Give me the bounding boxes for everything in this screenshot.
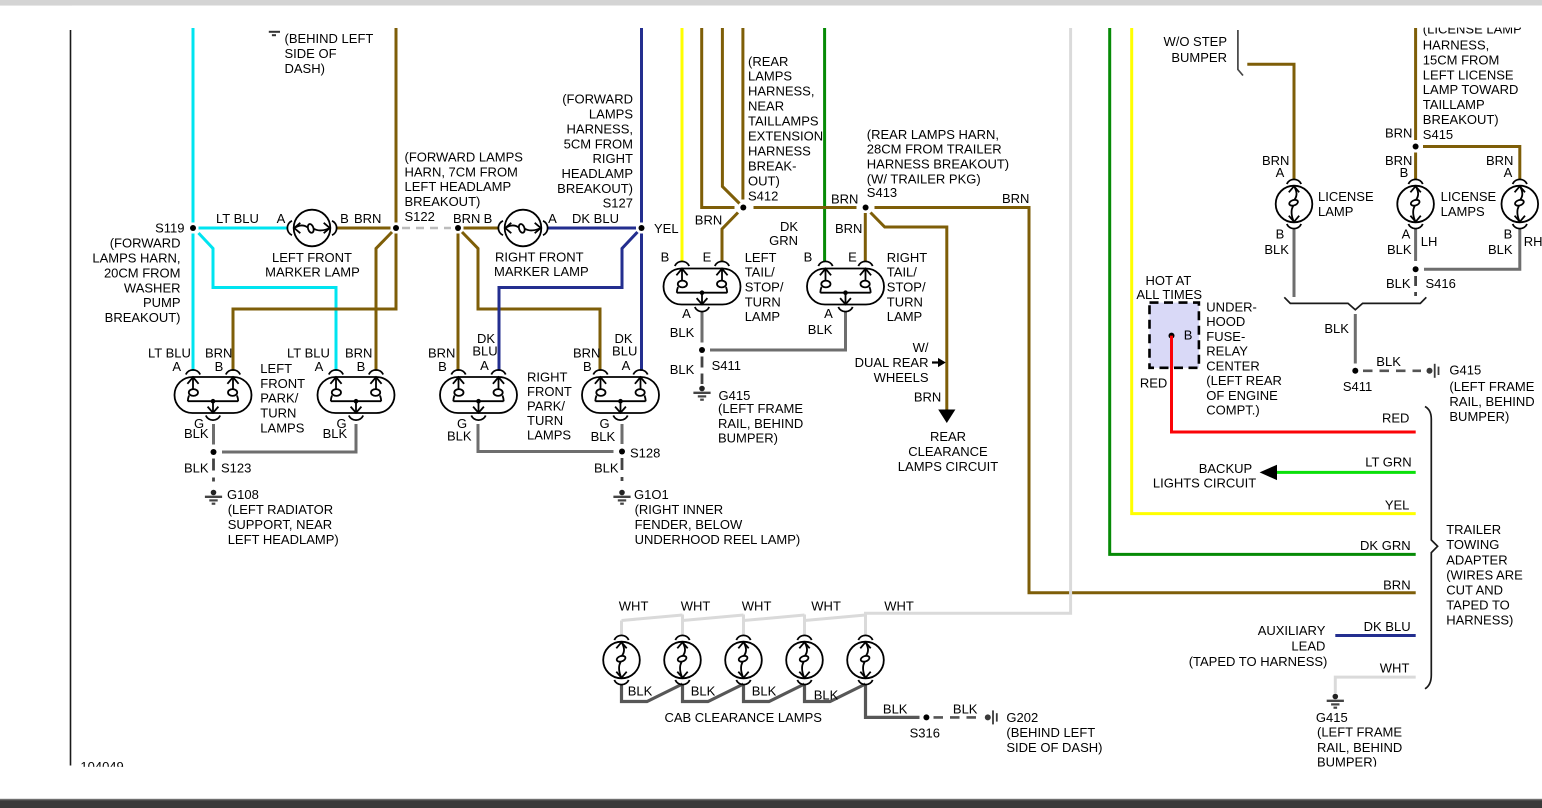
svg-text:LICENSE: LICENSE bbox=[1318, 189, 1374, 204]
top gray bar bbox=[0, 0, 1542, 6]
svg-text:REAR: REAR bbox=[930, 429, 966, 444]
svg-text:BLK: BLK bbox=[670, 362, 695, 377]
svg-text:CAB CLEARANCE LAMPS: CAB CLEARANCE LAMPS bbox=[664, 710, 822, 725]
lamp LEFT FRONT MARKER LAMP bbox=[287, 210, 336, 247]
wire BLK left tail lamp A to S411 bbox=[701, 311, 704, 343]
svg-text:B: B bbox=[1184, 327, 1193, 342]
label S127 breakout note bbox=[557, 92, 633, 211]
svg-text:RED: RED bbox=[1140, 376, 1167, 391]
svg-text:(LEFT FRAME: (LEFT FRAME bbox=[1317, 725, 1402, 740]
svg-text:SIDE OF: SIDE OF bbox=[285, 46, 337, 61]
wire BLK lamp2 G to S123 bbox=[222, 424, 356, 452]
svg-text:NEAR: NEAR bbox=[748, 99, 784, 114]
svg-text:HEADLAMP: HEADLAMP bbox=[561, 166, 633, 181]
node S128 bbox=[619, 449, 625, 455]
label BACKUP LIGHTS CIRCUIT bbox=[1153, 461, 1256, 491]
wire BRN S413 down to right tail lamp E bbox=[864, 213, 867, 262]
ground G415 bottom right bbox=[1327, 694, 1344, 708]
svg-text:HARNESS BREAKOUT): HARNESS BREAKOUT) bbox=[867, 157, 1009, 172]
svg-text:TURN: TURN bbox=[887, 294, 923, 309]
lamp LICENSE LAMP bbox=[1276, 179, 1313, 228]
splice S411 dashed bbox=[701, 357, 704, 385]
wire BLK RH license lamp B to S416 bbox=[1424, 228, 1520, 269]
lamp CAB CLEARANCE 5 bbox=[847, 635, 884, 684]
svg-text:S411: S411 bbox=[1343, 379, 1372, 394]
svg-text:LEAD: LEAD bbox=[1291, 639, 1325, 654]
svg-text:B: B bbox=[1400, 165, 1409, 180]
svg-text:A: A bbox=[622, 358, 631, 373]
svg-text:DK: DK bbox=[780, 219, 798, 234]
splice S411 right dashed bbox=[1363, 369, 1421, 372]
svg-text:UNDERHOOD REEL LAMP): UNDERHOOD REEL LAMP) bbox=[635, 532, 801, 547]
svg-text:LAMPS: LAMPS bbox=[527, 427, 571, 442]
svg-text:LH: LH bbox=[1421, 234, 1438, 249]
svg-text:TAILLAMPS: TAILLAMPS bbox=[748, 114, 819, 129]
svg-text:FRONT: FRONT bbox=[260, 376, 305, 391]
svg-text:TURN: TURN bbox=[260, 406, 296, 421]
svg-text:BACKUP: BACKUP bbox=[1199, 461, 1252, 476]
label TRAILER TOWING ADAPTER bbox=[1446, 522, 1523, 628]
wire LT BLU S119 branch to lamp2 A bbox=[199, 233, 337, 371]
svg-text:WHT: WHT bbox=[681, 599, 711, 614]
svg-text:15CM FROM: 15CM FROM bbox=[1423, 53, 1500, 68]
bottom clip mask bbox=[0, 767, 1542, 795]
svg-text:BRN: BRN bbox=[1002, 191, 1029, 206]
svg-text:RAIL, BEHIND: RAIL, BEHIND bbox=[1317, 740, 1402, 755]
svg-text:HARNESS,: HARNESS, bbox=[1423, 38, 1489, 53]
label behind-dash note bbox=[285, 31, 374, 76]
svg-text:WHT: WHT bbox=[811, 599, 841, 614]
svg-text:HARNESS): HARNESS) bbox=[1446, 613, 1513, 628]
svg-text:PUMP: PUMP bbox=[143, 295, 181, 310]
svg-text:DK BLU: DK BLU bbox=[572, 211, 619, 226]
fuse box terminal B dot bbox=[1169, 333, 1175, 339]
node S416 bbox=[1413, 266, 1419, 272]
svg-text:BLU: BLU bbox=[472, 344, 497, 359]
wire BRN S412 to left tail lamp E bbox=[722, 213, 738, 263]
splice S416 dashed bbox=[1414, 276, 1417, 296]
svg-text:B: B bbox=[438, 359, 447, 374]
svg-text:S122: S122 bbox=[405, 209, 435, 224]
svg-text:S412: S412 bbox=[748, 188, 778, 203]
lamp RIGHT FRONT PARK/TURN 1 bbox=[440, 370, 517, 420]
wire RED fuse center to trailer RED row bbox=[1172, 336, 1416, 432]
svg-text:BLK: BLK bbox=[447, 428, 472, 443]
svg-text:S123: S123 bbox=[221, 461, 251, 476]
wire BRN vertical into S412 bbox=[741, 28, 744, 200]
label LEFT FRONT MARKER LAMP bbox=[265, 250, 360, 280]
svg-text:PARK/: PARK/ bbox=[260, 391, 298, 406]
trailer towing adapter brace bbox=[1425, 407, 1438, 689]
lamp CAB CLEARANCE 2 bbox=[664, 635, 701, 684]
label REAR CLEARANCE LAMPS CIRCUIT bbox=[898, 429, 998, 474]
svg-text:S416: S416 bbox=[1426, 276, 1456, 291]
svg-text:LAMPS: LAMPS bbox=[748, 69, 792, 84]
wire BLK lamp3 G to S128 bbox=[478, 424, 614, 452]
bottom gray edge bbox=[0, 799, 1542, 801]
connector G415 right bbox=[1427, 364, 1439, 378]
svg-text:HOOD: HOOD bbox=[1206, 314, 1245, 329]
svg-text:LT BLU: LT BLU bbox=[287, 345, 330, 360]
wire BRN S122 diagonal branch to lamp2 B bbox=[376, 232, 392, 371]
node S412 bbox=[740, 205, 746, 211]
svg-text:BLK: BLK bbox=[1324, 321, 1349, 336]
svg-text:(BEHIND LEFT: (BEHIND LEFT bbox=[1006, 725, 1095, 740]
svg-text:LIGHTS CIRCUIT: LIGHTS CIRCUIT bbox=[1153, 476, 1256, 491]
label LEFT FRONT PARK/TURN LAMPS bbox=[260, 361, 305, 435]
svg-text:S413: S413 bbox=[867, 185, 897, 200]
svg-text:MARKER LAMP: MARKER LAMP bbox=[494, 264, 589, 279]
svg-text:WHT: WHT bbox=[619, 599, 649, 614]
svg-text:BUMPER): BUMPER) bbox=[718, 431, 778, 446]
svg-text:(FORWARD LAMPS: (FORWARD LAMPS bbox=[405, 150, 524, 165]
label S415 breakout note bbox=[1423, 22, 1522, 142]
svg-text:RELAY: RELAY bbox=[1206, 344, 1248, 359]
svg-text:DK GRN: DK GRN bbox=[1360, 538, 1411, 553]
arrow backup lights circuit bbox=[1260, 465, 1277, 480]
svg-text:BLK: BLK bbox=[670, 325, 695, 340]
label G108 note bbox=[227, 487, 339, 547]
svg-text:S411: S411 bbox=[712, 358, 741, 373]
wire BLK lamp4 G to S128 bbox=[621, 424, 624, 444]
splice S316 dashed bbox=[934, 716, 983, 719]
svg-text:A: A bbox=[315, 359, 324, 374]
svg-text:BLK: BLK bbox=[184, 426, 209, 441]
splice S128 dashed bbox=[621, 458, 624, 486]
wire WHT auxiliary row to ground bbox=[1335, 677, 1415, 693]
lamp CAB CLEARANCE 4 bbox=[786, 635, 823, 684]
svg-text:PARK/: PARK/ bbox=[527, 398, 565, 413]
ground G1O1 bbox=[613, 490, 630, 504]
svg-text:BLK: BLK bbox=[691, 684, 716, 699]
lamp CAB CLEARANCE 3 bbox=[725, 635, 762, 684]
svg-text:WASHER: WASHER bbox=[124, 280, 181, 295]
svg-text:B: B bbox=[484, 211, 493, 226]
svg-text:ALL TIMES: ALL TIMES bbox=[1136, 287, 1202, 302]
svg-text:AUXILIARY: AUXILIARY bbox=[1258, 623, 1326, 638]
svg-text:CENTER: CENTER bbox=[1206, 358, 1259, 373]
svg-text:LICENSE: LICENSE bbox=[1441, 189, 1497, 204]
lamp LICENSE RH bbox=[1502, 179, 1539, 228]
svg-text:A: A bbox=[1402, 226, 1411, 241]
svg-text:BREAKOUT): BREAKOUT) bbox=[557, 181, 633, 196]
node S316 bbox=[923, 714, 929, 720]
label G415 bottom note bbox=[1316, 710, 1402, 770]
svg-text:LEFT FRONT: LEFT FRONT bbox=[272, 250, 352, 265]
label AUXILIARY LEAD bbox=[1189, 623, 1328, 669]
svg-text:B: B bbox=[804, 250, 813, 265]
svg-text:G1O1: G1O1 bbox=[634, 487, 669, 502]
svg-text:B: B bbox=[583, 359, 592, 374]
wire DK GRN vertical to trailer DK GRN row bbox=[1110, 28, 1416, 554]
node S413 bbox=[863, 205, 869, 211]
svg-text:HARN, 7CM FROM: HARN, 7CM FROM bbox=[405, 164, 518, 179]
svg-text:(FORWARD: (FORWARD bbox=[110, 236, 181, 251]
svg-text:CLEARANCE: CLEARANCE bbox=[908, 444, 988, 459]
wire BLK right tail lamp A to S411 bbox=[710, 311, 846, 350]
svg-text:YEL: YEL bbox=[1385, 498, 1410, 513]
ground G108 bbox=[205, 490, 222, 504]
svg-text:BREAKOUT): BREAKOUT) bbox=[405, 194, 481, 209]
svg-text:A: A bbox=[480, 358, 489, 373]
svg-text:BLK: BLK bbox=[1376, 354, 1401, 369]
svg-text:HOT AT: HOT AT bbox=[1146, 273, 1192, 288]
svg-text:LEFT HEADLAMP: LEFT HEADLAMP bbox=[405, 179, 512, 194]
svg-text:BREAKOUT): BREAKOUT) bbox=[1423, 112, 1499, 127]
label G415 right note bbox=[1449, 363, 1534, 424]
svg-text:BLK: BLK bbox=[814, 688, 839, 703]
svg-text:OF ENGINE: OF ENGINE bbox=[1206, 388, 1278, 403]
wire BRN vertical with diagonal into S412 bbox=[722, 28, 739, 204]
svg-text:TURN: TURN bbox=[527, 413, 563, 428]
node S122 link right bbox=[455, 225, 461, 231]
wire WHT vertical from top down then left to cab lamp 5 bbox=[866, 28, 1071, 636]
lamp LEFT FRONT PARK/TURN 1 bbox=[175, 370, 252, 420]
mini ground behind-dash bbox=[269, 31, 280, 33]
svg-text:TRAILER: TRAILER bbox=[1446, 522, 1501, 537]
wire YEL vertical to trailer YEL row bbox=[1132, 28, 1416, 514]
svg-text:W/: W/ bbox=[913, 340, 929, 355]
svg-text:WHT: WHT bbox=[1380, 661, 1410, 676]
label S122 breakout note bbox=[405, 150, 524, 224]
svg-text:TOWING: TOWING bbox=[1446, 537, 1499, 552]
label LEFT TAIL/STOP/TURN LAMP bbox=[745, 250, 784, 324]
wire WHT cab lamp risers and diagonals bbox=[622, 615, 866, 637]
svg-text:B: B bbox=[340, 211, 349, 226]
svg-text:BLK: BLK bbox=[1386, 276, 1411, 291]
svg-text:LAMPS: LAMPS bbox=[589, 107, 633, 122]
svg-text:A: A bbox=[682, 306, 691, 321]
svg-text:LAMP: LAMP bbox=[1318, 204, 1353, 219]
svg-text:EXTENSION: EXTENSION bbox=[748, 129, 823, 144]
label DK BLU lamp3 bbox=[472, 331, 497, 359]
svg-text:S119: S119 bbox=[155, 221, 184, 236]
svg-text:G415: G415 bbox=[1316, 710, 1348, 725]
bracket w/o step bumper bbox=[1238, 30, 1243, 76]
wire LT GRN backup lights row bbox=[1277, 471, 1416, 474]
svg-text:W/O STEP: W/O STEP bbox=[1163, 34, 1227, 49]
svg-text:YEL: YEL bbox=[654, 221, 679, 236]
svg-text:CUT AND: CUT AND bbox=[1446, 583, 1503, 598]
wire BLK brace to S411 right bbox=[1354, 314, 1357, 364]
svg-text:DK BLU: DK BLU bbox=[1364, 619, 1411, 634]
svg-text:RH: RH bbox=[1524, 234, 1542, 249]
svg-text:BREAKOUT): BREAKOUT) bbox=[105, 310, 181, 325]
svg-text:LAMP: LAMP bbox=[745, 309, 780, 324]
svg-text:BLK: BLK bbox=[1387, 242, 1412, 257]
svg-text:BREAK-: BREAK- bbox=[748, 158, 796, 173]
wire BRN S415 right and down to RH license lamp A bbox=[1423, 147, 1520, 181]
svg-text:RAIL, BEHIND: RAIL, BEHIND bbox=[718, 416, 803, 431]
svg-text:FUSE-: FUSE- bbox=[1206, 329, 1245, 344]
svg-text:ADAPTER: ADAPTER bbox=[1446, 552, 1507, 567]
wire BLK cab lamp chain bbox=[622, 684, 920, 717]
svg-text:LEFT HEADLAMP): LEFT HEADLAMP) bbox=[228, 532, 339, 547]
svg-text:A: A bbox=[1276, 165, 1285, 180]
node S127 bbox=[639, 225, 645, 231]
svg-text:COMPT.): COMPT.) bbox=[1206, 403, 1259, 418]
label W/ DUAL REAR WHEELS bbox=[855, 340, 929, 385]
lamp LICENSE LH bbox=[1397, 179, 1434, 228]
svg-text:G415: G415 bbox=[1449, 363, 1481, 378]
svg-text:S127: S127 bbox=[603, 196, 633, 211]
wire BRN S413 right then down then right to trailer BRN row bbox=[875, 208, 1416, 593]
lamp LEFT TAIL/STOP/TURN bbox=[664, 261, 741, 311]
svg-text:BLK: BLK bbox=[184, 461, 209, 476]
wire LT BLU vertical from top to S119 and on to lamp1 A bbox=[192, 28, 195, 223]
wire BRN left front marker lamp B to S122 bbox=[336, 227, 391, 230]
fuse-relay center box bbox=[1150, 303, 1199, 368]
svg-text:(BEHIND LEFT: (BEHIND LEFT bbox=[285, 31, 374, 46]
label S413 breakout note bbox=[867, 127, 1009, 200]
svg-text:E: E bbox=[848, 250, 857, 265]
wire BLK LH license lamp A to S416 bbox=[1414, 228, 1417, 261]
svg-text:OUT): OUT) bbox=[748, 173, 780, 188]
splice S123 dashed bbox=[212, 459, 215, 487]
svg-text:LEFT: LEFT bbox=[260, 361, 292, 376]
svg-text:LAMPS: LAMPS bbox=[260, 420, 304, 435]
svg-text:GRN: GRN bbox=[769, 233, 798, 248]
svg-text:(FORWARD: (FORWARD bbox=[562, 92, 633, 107]
svg-text:BRN: BRN bbox=[695, 213, 722, 228]
wire BRN S122 down then left to lamp1 B bbox=[233, 234, 396, 372]
svg-text:BLK: BLK bbox=[1488, 242, 1513, 257]
node S411 left bbox=[699, 347, 705, 353]
svg-text:RIGHT: RIGHT bbox=[527, 370, 568, 385]
label DK BLU lamp4 bbox=[612, 331, 637, 359]
svg-text:SIDE OF DASH): SIDE OF DASH) bbox=[1006, 740, 1102, 755]
left border line bbox=[70, 30, 72, 766]
lamp RIGHT FRONT MARKER LAMP bbox=[498, 210, 547, 247]
node S123 bbox=[211, 449, 217, 455]
svg-text:HARNESS,: HARNESS, bbox=[567, 121, 633, 136]
svg-text:FENDER, BELOW: FENDER, BELOW bbox=[635, 517, 743, 532]
label LICENSE LAMP bbox=[1318, 189, 1374, 219]
svg-text:A: A bbox=[277, 211, 286, 226]
svg-text:LAMPS: LAMPS bbox=[1441, 204, 1485, 219]
svg-text:WHT: WHT bbox=[884, 599, 914, 614]
svg-text:G202: G202 bbox=[1006, 710, 1038, 725]
svg-text:LAMPS HARN,: LAMPS HARN, bbox=[92, 251, 180, 266]
node S122 bbox=[393, 225, 399, 231]
svg-text:A: A bbox=[824, 306, 833, 321]
svg-text:(WIRES ARE: (WIRES ARE bbox=[1446, 567, 1523, 582]
connector G202 bbox=[985, 710, 997, 724]
svg-text:(LEFT FRAME: (LEFT FRAME bbox=[718, 401, 803, 416]
svg-text:HARNESS: HARNESS bbox=[748, 144, 811, 159]
top clip mask bbox=[72, 6, 1542, 28]
wire splice link S122 dashed bbox=[402, 227, 451, 229]
svg-text:LAMPS CIRCUIT: LAMPS CIRCUIT bbox=[898, 459, 998, 474]
svg-text:BLK: BLK bbox=[752, 684, 777, 699]
svg-text:STOP/: STOP/ bbox=[887, 280, 926, 295]
label RIGHT FRONT PARK/TURN LAMPS bbox=[527, 370, 572, 443]
ground G415 left bbox=[693, 386, 710, 400]
svg-text:BLK: BLK bbox=[1264, 242, 1289, 257]
svg-text:BLK: BLK bbox=[628, 684, 653, 699]
arrow rear clearance circuit bbox=[938, 410, 955, 424]
label G1O1 note bbox=[634, 487, 800, 547]
svg-text:S316: S316 bbox=[910, 726, 940, 741]
svg-text:TAIL/: TAIL/ bbox=[745, 265, 775, 280]
label UNDERHOOD FUSE-RELAY CENTER bbox=[1206, 299, 1282, 417]
svg-text:LT BLU: LT BLU bbox=[216, 211, 259, 226]
svg-text:(LEFT FRAME: (LEFT FRAME bbox=[1449, 379, 1534, 394]
svg-text:BLK: BLK bbox=[953, 701, 978, 716]
svg-text:E: E bbox=[703, 250, 712, 265]
svg-text:DUAL REAR: DUAL REAR bbox=[855, 355, 929, 370]
svg-text:LT GRN: LT GRN bbox=[1365, 454, 1411, 469]
svg-text:TAILLAMP: TAILLAMP bbox=[1423, 97, 1485, 112]
svg-text:RAIL, BEHIND: RAIL, BEHIND bbox=[1449, 394, 1534, 409]
svg-text:BUMPER): BUMPER) bbox=[1449, 409, 1509, 424]
svg-text:B: B bbox=[1276, 226, 1285, 241]
svg-text:BRN: BRN bbox=[354, 211, 381, 226]
wire BRN node straight down to lamp3 B bbox=[457, 234, 460, 372]
wire BRN vertical from top to S122 bbox=[395, 28, 398, 223]
lamp RIGHT TAIL/STOP/TURN bbox=[807, 261, 884, 311]
node S411 right bbox=[1352, 368, 1358, 374]
svg-text:BRN: BRN bbox=[835, 221, 862, 236]
svg-text:20CM FROM: 20CM FROM bbox=[104, 265, 181, 280]
svg-text:S415: S415 bbox=[1423, 127, 1453, 142]
wire DK GRN vertical to right tail lamp B bbox=[823, 28, 826, 262]
wire YEL vertical to left tail lamp B bbox=[681, 28, 684, 262]
svg-text:A: A bbox=[548, 211, 557, 226]
svg-text:MARKER LAMP: MARKER LAMP bbox=[265, 264, 360, 279]
svg-text:LT BLU: LT BLU bbox=[148, 345, 191, 360]
wire BLK lamp1 G to S123 bbox=[212, 424, 215, 445]
svg-text:BLK: BLK bbox=[591, 429, 616, 444]
svg-text:A: A bbox=[1504, 165, 1513, 180]
label W/O STEP BUMPER bbox=[1163, 34, 1227, 65]
svg-text:B: B bbox=[215, 359, 224, 374]
svg-text:STOP/: STOP/ bbox=[745, 280, 784, 295]
svg-text:B: B bbox=[661, 250, 670, 265]
wire LT BLU S119 to left front marker lamp A bbox=[199, 227, 289, 230]
wire BRN vertical top to S415 bbox=[1414, 28, 1417, 140]
label S119 breakout note bbox=[92, 236, 180, 325]
svg-text:BLK: BLK bbox=[883, 701, 908, 716]
svg-text:RIGHT: RIGHT bbox=[593, 151, 634, 166]
wire BRN w/o step bumper to license lamp A bbox=[1247, 64, 1294, 180]
svg-text:BRN: BRN bbox=[831, 192, 858, 207]
wire BRN S413 branch to rear clearance lamps arrow bbox=[871, 213, 947, 411]
lamp RIGHT FRONT PARK/TURN 2 bbox=[582, 370, 659, 420]
brace gathering license lamp grounds bbox=[1284, 297, 1426, 310]
svg-text:SUPPORT, NEAR: SUPPORT, NEAR bbox=[228, 517, 333, 532]
svg-text:B: B bbox=[1504, 226, 1513, 241]
svg-text:BLK: BLK bbox=[594, 461, 619, 476]
label RIGHT TAIL/STOP/TURN LAMP bbox=[887, 250, 928, 324]
svg-text:WHEELS: WHEELS bbox=[874, 370, 929, 385]
svg-text:A: A bbox=[172, 359, 181, 374]
svg-text:5CM FROM: 5CM FROM bbox=[564, 136, 633, 151]
svg-text:RED: RED bbox=[1382, 410, 1409, 425]
svg-text:BRN: BRN bbox=[453, 211, 480, 226]
label HOT AT ALL TIMES bbox=[1136, 273, 1202, 302]
wire DK BLU S127 branch to lamp3 A bbox=[499, 232, 638, 371]
svg-text:RIGHT: RIGHT bbox=[887, 250, 928, 265]
svg-text:(TAPED TO HARNESS): (TAPED TO HARNESS) bbox=[1189, 654, 1328, 669]
node S119 bbox=[190, 225, 196, 231]
label S412 breakout note bbox=[748, 54, 823, 204]
svg-text:S128: S128 bbox=[630, 446, 660, 461]
lamp LEFT FRONT PARK/TURN 2 bbox=[318, 370, 395, 420]
bottom dark bar bbox=[0, 800, 1542, 808]
svg-text:LAMP: LAMP bbox=[887, 309, 922, 324]
wire DK BLU vertical from top through S127 to lamp4 A bbox=[640, 28, 643, 223]
